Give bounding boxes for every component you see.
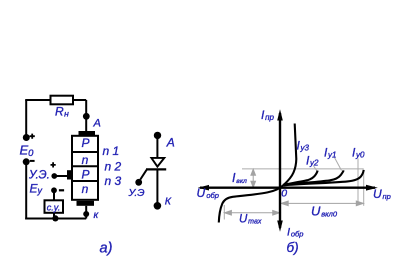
wire: Ey to control unit box [53,193,55,201]
axis arrowhead down [277,221,283,232]
svg-text:A: A [166,136,175,150]
wire: left vertical branch of E0 loop [25,100,27,138]
wire: left vertical lower segment [25,161,27,220]
axis arrowhead left [198,185,209,191]
junction line n2 [72,165,98,167]
wire: control unit to bottom wire [53,213,55,219]
dimension arrow U_vkl0 [281,201,363,206]
svg-text:Uвкл0: Uвкл0 [311,204,338,219]
battery E0 minus terminal dot [23,158,30,165]
svg-text:n: n [82,153,89,167]
curve main S with Iy3 branch and reverse breakdown [219,124,296,223]
wire: symbol cathode lead [156,169,158,205]
axis vertical I [279,113,281,228]
svg-text:n: n [82,182,89,196]
wire: symbol anode lead [156,135,158,158]
junction line n1 [72,151,98,153]
svg-text:E0: E0 [20,143,35,160]
node dot UE terminal [51,173,57,179]
plus sign at UE [51,162,56,167]
wire: gate horizontal [55,175,67,177]
thyristor 4-layer stack body [72,136,98,200]
svg-text:n 3: n 3 [105,174,122,188]
svg-text:У.Э.: У.Э. [28,170,50,182]
svg-text:а): а) [100,240,113,256]
leader line from Iy2 label [313,166,317,172]
svg-text:A: A [93,118,101,130]
minus sign at Ey [59,189,64,191]
dimension arrow U_max [224,211,279,216]
wire: bottom horizontal [25,218,86,220]
node A dot [83,113,90,120]
svg-text:Eу: Eу [30,182,43,196]
svg-text:Iвкл: Iвкл [232,171,247,185]
control unit box s.u. [45,200,64,213]
svg-text:б): б) [287,240,299,255]
svg-text:Iу3: Iу3 [297,139,310,153]
wire: cathode vertical [85,206,87,219]
junction line n3 [72,180,98,182]
axis arrowhead right [366,185,378,191]
wire: symbol gate lead [140,170,146,180]
svg-text:Uпр: Uпр [373,187,391,201]
svg-text:P: P [81,168,89,182]
axis horizontal U [200,186,375,188]
curve Iy1 [284,170,344,185]
svg-text:n 2: n 2 [105,160,122,174]
curve Iy0 [284,170,364,185]
wire: top horizontal [25,99,86,101]
thyristor symbol: anode terminal dot [154,132,161,139]
node dot on bottom wire [52,215,58,221]
svg-text:Iу2: Iу2 [306,154,319,168]
svg-text:Umax: Umax [239,214,262,226]
svg-text:0: 0 [281,187,287,199]
thin level line I_vkl [242,168,364,170]
thyristor symbol triangle [151,158,164,167]
symbol gate terminal dot [135,179,142,186]
dimension arrow I_vkl [251,169,256,187]
leader line from Iy0 label [357,159,359,204]
resistor RH body [51,96,74,105]
svg-text:Rн: Rн [55,105,69,119]
curve Iy2 [283,171,318,185]
gate contact rect on stack [67,170,72,179]
extension line at Iy0 breakover [363,170,365,206]
leader line from Iy1 label [335,158,342,171]
svg-text:P: P [81,136,89,150]
axis arrowhead up [277,109,283,120]
thyristor symbol cathode bar [146,168,166,170]
svg-text:Iу1: Iу1 [324,146,336,160]
svg-text:У.Э: У.Э [128,187,145,199]
extension line at Umax point [223,205,225,220]
symbol cathode terminal dot [154,202,162,210]
svg-text:Iобр: Iобр [287,227,303,239]
battery E0 plus terminal dot [23,134,30,141]
svg-text:Iпр: Iпр [261,108,275,122]
wire: anode vertical from top wire to stack [85,100,87,132]
svg-text:к: к [94,210,100,221]
minus sign at E0 [30,160,35,162]
cathode contact bar [77,201,95,206]
svg-text:с.у.: с.у. [47,202,60,212]
svg-text:Iу0: Iу0 [352,146,365,160]
plus sign at E0 [30,134,35,139]
node K dot (circuit) [83,211,89,217]
svg-text:К: К [165,196,172,208]
anode contact bar [79,131,96,136]
node dot Ey minus terminal [51,187,57,193]
svg-text:n 1: n 1 [103,144,120,158]
